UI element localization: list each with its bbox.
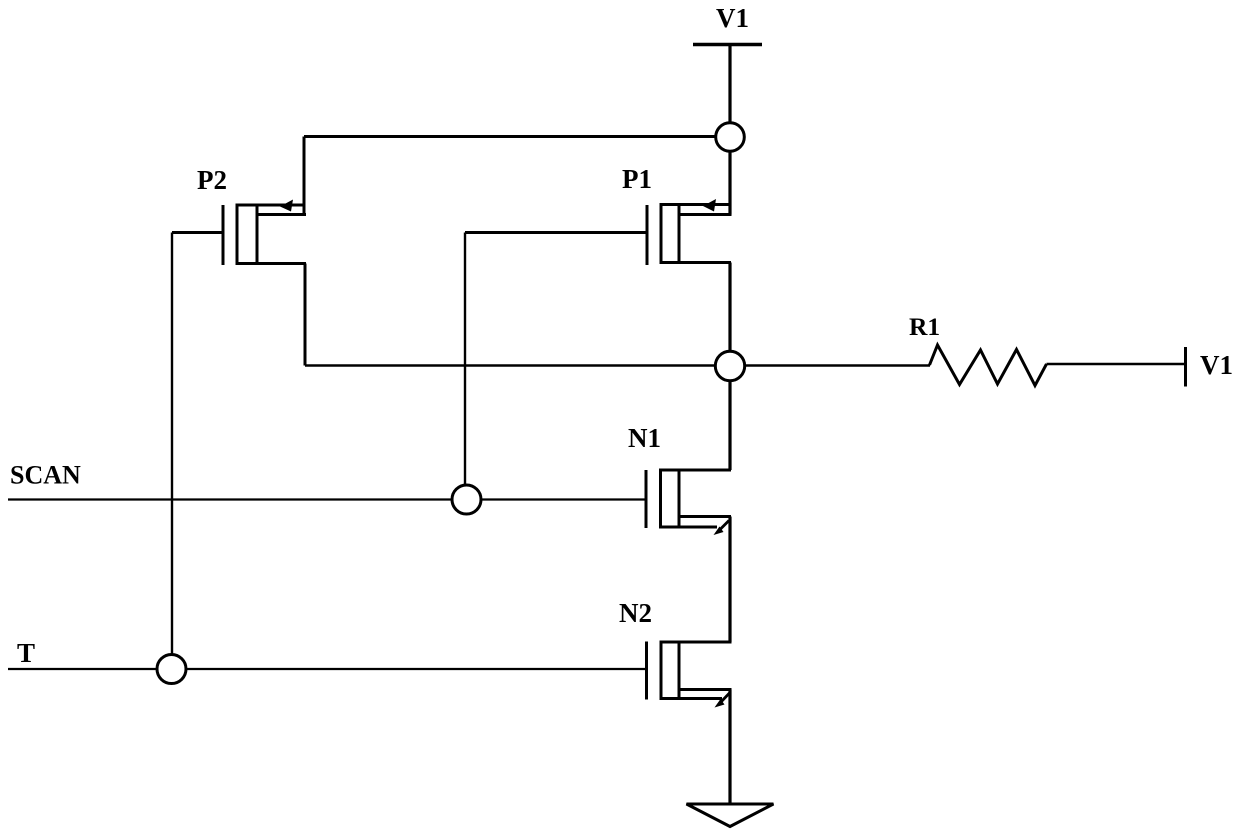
transistor P1 (PMOS) (465, 199, 732, 265)
wire: N1 source down to N2 drain (728, 517, 731, 643)
svg-text:P2: P2 (197, 165, 227, 195)
wire: vertical drop into P2 source (303, 137, 306, 215)
ground symbol (687, 804, 774, 827)
svg-text:N2: N2 (619, 598, 652, 628)
wire: N2 source down to ground (728, 690, 731, 805)
resistor R1 zigzag (930, 345, 1047, 386)
svg-text:SCAN: SCAN (10, 461, 81, 490)
svg-text:V1: V1 (1200, 350, 1233, 380)
svg-text:R1: R1 (909, 312, 940, 341)
SCAN junction circle (452, 485, 481, 514)
wire: node A left to P2 source corner (304, 135, 730, 138)
T junction circle (157, 655, 186, 684)
wire: node A down to P1 source (728, 137, 731, 215)
power terminal V1 top bar (693, 43, 762, 47)
node A junction circle (716, 123, 745, 152)
svg-text:V1: V1 (716, 3, 749, 33)
wire: T line (8, 668, 647, 670)
wire: R1 to right V1 terminal (1047, 363, 1185, 366)
transistor N2 (NMOS) (647, 642, 732, 708)
wire: output line from P2 drain to node B (305, 364, 730, 367)
transistor N1 (NMOS) (646, 470, 731, 535)
wire: P2 drain down (304, 264, 307, 366)
svg-text:P1: P1 (622, 164, 652, 194)
wire: P1 drain down to node B (728, 263, 731, 367)
transistor P2 (PMOS) (172, 200, 306, 266)
wire: SCAN line (8, 498, 646, 500)
svg-text:T: T (17, 638, 35, 668)
svg-text:N1: N1 (628, 423, 661, 453)
wire: P1 gate riser down to SCAN node (464, 233, 466, 500)
node B junction circle (output) (715, 351, 744, 380)
wire: node B to resistor R1 (730, 364, 930, 367)
wire: V1 terminal down to node A (728, 45, 731, 131)
wire: P2 gate riser down to T node (171, 233, 173, 670)
power terminal V1 right bar (1184, 347, 1187, 387)
wire: node B down to N1 drain (728, 366, 731, 470)
